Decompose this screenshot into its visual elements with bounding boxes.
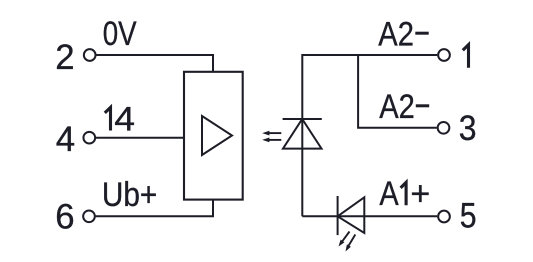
svg-text:A2: A2 bbox=[379, 88, 415, 126]
wire Ub+: terminal 6 to amplifier box bottom bbox=[96, 200, 213, 217]
terminal 5 bbox=[438, 211, 450, 223]
amplifier block bbox=[184, 72, 243, 200]
svg-text:3: 3 bbox=[459, 109, 477, 148]
label terminal 1 (drawn) bbox=[463, 45, 469, 68]
LED (horizontal, to terminal 5, cathode bar left) bbox=[338, 196, 365, 235]
svg-text:4: 4 bbox=[114, 101, 135, 139]
terminal 6 bbox=[83, 210, 95, 222]
wire bottom rail: to terminal 5 through LED bbox=[302, 215, 437, 217]
svg-text:A2: A2 bbox=[378, 15, 414, 53]
wire 0V: terminal 2 to amplifier box top bbox=[96, 55, 213, 72]
svg-text:0V: 0V bbox=[103, 15, 137, 53]
amplifier triangle bbox=[202, 116, 232, 155]
svg-text:+: + bbox=[410, 175, 430, 213]
svg-text:5: 5 bbox=[460, 196, 477, 235]
wire branch: junction to terminal 3 bbox=[358, 55, 437, 128]
LED D (vertical, cathode bar top) bbox=[283, 119, 322, 149]
LED D light arrows (pointing left) bbox=[262, 131, 281, 143]
svg-text:A: A bbox=[379, 175, 399, 213]
svg-text:4: 4 bbox=[56, 120, 75, 159]
wire A2- bus: terminal 1 left then down through LED to bottom rail bbox=[302, 55, 437, 216]
terminal 3 bbox=[438, 122, 450, 134]
svg-text:Ub+: Ub+ bbox=[102, 176, 157, 214]
svg-text:2: 2 bbox=[55, 38, 74, 77]
net label 14 (1 drawn, 4 text) bbox=[105, 107, 111, 130]
svg-text:6: 6 bbox=[55, 198, 74, 237]
terminal 2 bbox=[84, 49, 96, 61]
wire 14: terminal 4 to amplifier box left bbox=[96, 137, 184, 139]
terminal 1 bbox=[438, 49, 450, 61]
LED light arrows (pointing down-left) bbox=[339, 232, 356, 252]
terminal 4 bbox=[83, 132, 95, 144]
